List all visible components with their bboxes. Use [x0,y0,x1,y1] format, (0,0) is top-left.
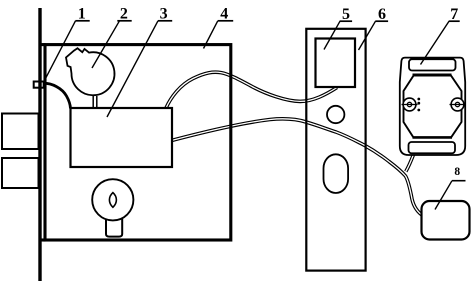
controller 7 octagon face [404,75,462,138]
leader 2 [92,21,120,68]
wire from controller 7 down to junction [406,155,414,172]
leader 1 [44,21,75,81]
wire from module 3 top to button 5 (upper cable) [166,72,337,108]
small circle in panel [327,106,344,123]
button 5 (square in panel) [316,39,356,88]
panel 6 (tall rectangle) [306,29,365,271]
leader 3 [107,21,158,117]
controller 7 top tab [409,59,456,70]
oval opening in panel [324,154,349,193]
bolt (upper latch bolt) [2,114,39,150]
keyhole tab [106,218,122,237]
leader 7 [421,21,450,64]
adapter 8 [422,201,470,240]
bolt (lower deadbolt) [2,158,39,188]
svg-text:8: 8 [454,166,460,178]
controller 7 right screw [451,98,464,111]
label 4 underline [218,20,233,22]
label 3 underline [158,20,172,22]
leader 4 [204,21,218,49]
label 7 underline [449,20,460,22]
module 3 (rectangle) [71,108,173,167]
latch link arc [44,83,71,108]
label 6 underline [375,20,388,22]
label 2 underline [117,20,131,22]
knob cam 2 (blob with bump) [66,48,114,95]
wire from module 3 right side to adapter 8 (lower cable) [172,119,425,217]
leader 6 [359,21,376,50]
leader 8 [435,181,452,210]
keyhole cylinder circle [92,179,133,220]
label 1 underline [75,20,89,22]
stem of knob 2 [93,96,97,108]
lock case 4 bottom edge extension to faceplate [40,238,46,241]
controller 7 [400,58,466,155]
lock case 4 top edge extension to faceplate [40,43,46,46]
label 5 underline [340,20,353,22]
label 8 underline [452,180,466,182]
controller 7 bottom tab [409,142,456,153]
controller 7 indicator dots [417,98,420,101]
faceplate bar 1 [38,8,41,281]
lock case 4 (main box) [45,45,231,240]
controller 7 outer body [400,58,465,155]
latch square 1 [34,82,44,88]
leader 5 [324,21,340,49]
keyhole slot [109,193,116,208]
controller 7 left screw [403,98,416,111]
